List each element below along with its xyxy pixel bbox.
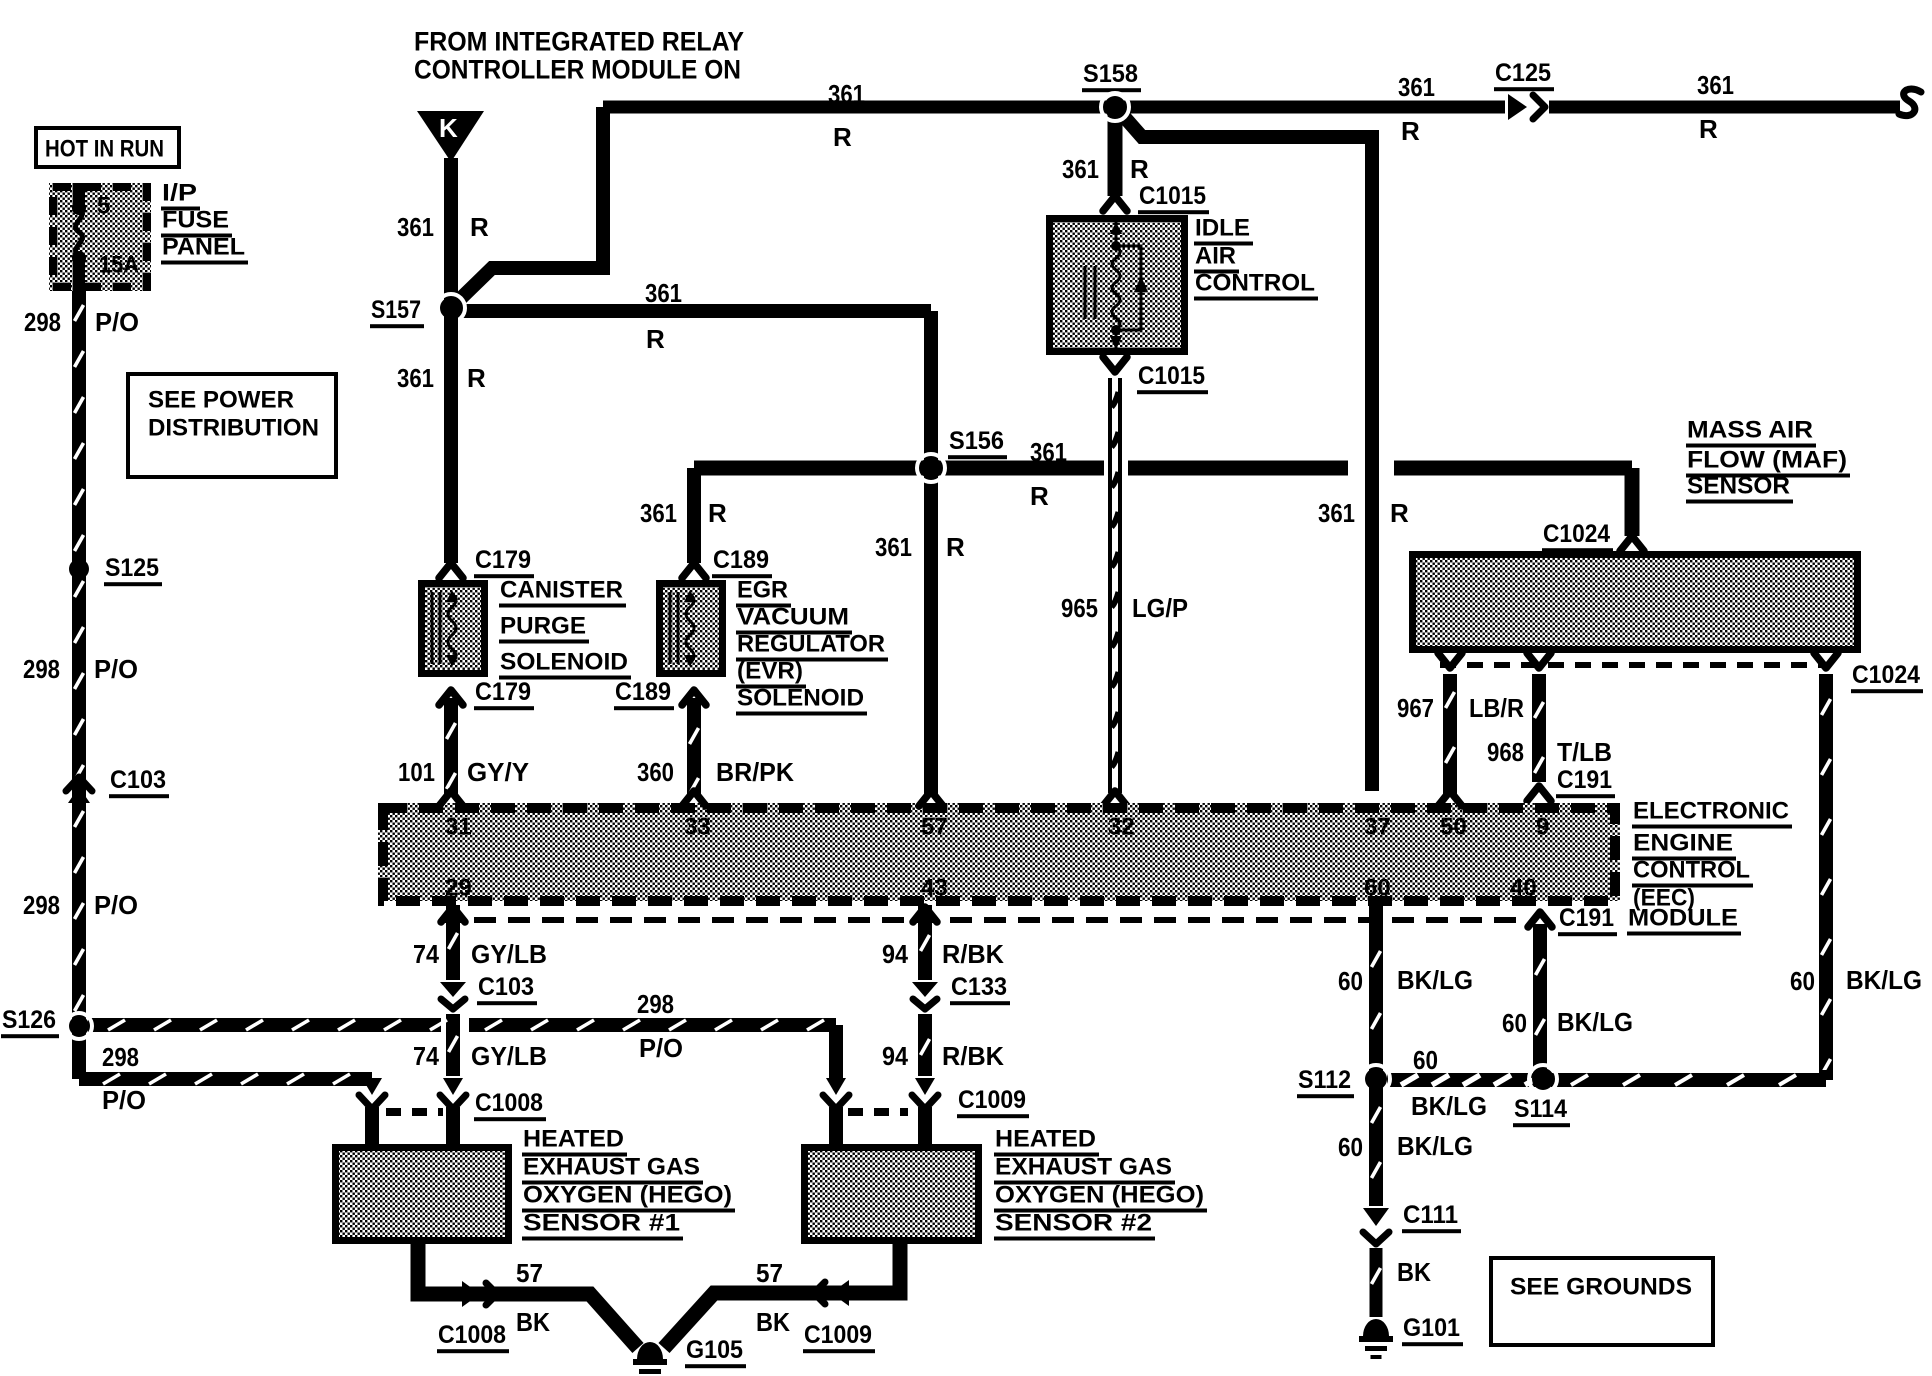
svg-text:S112: S112 — [1298, 1066, 1351, 1094]
svg-text:GY/Y: GY/Y — [467, 757, 529, 787]
svg-text:40: 40 — [1510, 875, 1537, 902]
svg-text:361: 361 — [1318, 498, 1355, 528]
svg-text:R: R — [1401, 116, 1420, 146]
svg-text:OXYGEN (HEGO): OXYGEN (HEGO) — [523, 1182, 732, 1209]
svg-text:R: R — [1030, 481, 1049, 511]
svg-text:361: 361 — [1697, 70, 1734, 100]
svg-text:SOLENOID: SOLENOID — [737, 685, 864, 712]
svg-text:C103: C103 — [478, 973, 534, 1001]
svg-text:298: 298 — [24, 307, 61, 337]
svg-text:HOT IN RUN: HOT IN RUN — [45, 136, 164, 163]
svg-text:C1024: C1024 — [1543, 520, 1610, 548]
svg-text:FLOW (MAF): FLOW (MAF) — [1687, 447, 1847, 474]
svg-text:P/O: P/O — [94, 890, 138, 920]
svg-text:50: 50 — [1440, 814, 1467, 841]
svg-text:BK/LG: BK/LG — [1411, 1091, 1487, 1121]
svg-text:94: 94 — [882, 1041, 908, 1071]
svg-text:R: R — [946, 532, 965, 562]
svg-text:LB/R: LB/R — [1469, 693, 1524, 723]
svg-text:298: 298 — [102, 1042, 139, 1072]
svg-text:I/P: I/P — [162, 180, 197, 207]
svg-text:C1024: C1024 — [1852, 661, 1920, 689]
svg-text:G101: G101 — [1403, 1314, 1460, 1342]
svg-text:31: 31 — [445, 814, 472, 841]
svg-text:MODULE: MODULE — [1628, 905, 1738, 932]
svg-text:PURGE: PURGE — [500, 613, 586, 640]
svg-text:GY/LB: GY/LB — [471, 1041, 547, 1071]
svg-text:361: 361 — [645, 278, 682, 308]
svg-text:BK: BK — [756, 1307, 790, 1337]
svg-text:EXHAUST GAS: EXHAUST GAS — [995, 1154, 1172, 1181]
svg-text:C125: C125 — [1495, 59, 1551, 87]
svg-text:PANEL: PANEL — [162, 234, 245, 261]
svg-text:LG/P: LG/P — [1132, 593, 1188, 623]
svg-text:ELECTRONIC: ELECTRONIC — [1633, 798, 1789, 825]
svg-text:CONTROLLER MODULE ON: CONTROLLER MODULE ON — [414, 55, 741, 85]
svg-text:101: 101 — [398, 757, 435, 787]
svg-text:CONTROL: CONTROL — [1633, 857, 1750, 884]
svg-text:SOLENOID: SOLENOID — [500, 649, 628, 676]
svg-text:C1008: C1008 — [438, 1321, 506, 1349]
svg-text:C1009: C1009 — [804, 1321, 872, 1349]
svg-text:57: 57 — [921, 814, 948, 841]
svg-text:BK: BK — [1397, 1257, 1431, 1287]
svg-text:CONTROL: CONTROL — [1195, 270, 1315, 297]
svg-text:G105: G105 — [686, 1336, 743, 1364]
svg-text:EGR: EGR — [737, 577, 788, 604]
svg-text:74: 74 — [413, 1041, 439, 1071]
svg-text:BK/LG: BK/LG — [1397, 1131, 1473, 1161]
svg-text:S126: S126 — [2, 1006, 56, 1034]
svg-text:P/O: P/O — [94, 654, 138, 684]
svg-text:R: R — [708, 498, 727, 528]
svg-text:60: 60 — [1338, 966, 1363, 996]
svg-text:37: 37 — [1364, 814, 1391, 841]
svg-text:R/BK: R/BK — [942, 1041, 1004, 1071]
svg-text:P/O: P/O — [102, 1085, 146, 1115]
svg-text:361: 361 — [875, 532, 912, 562]
svg-text:C1015: C1015 — [1138, 362, 1205, 390]
svg-text:32: 32 — [1108, 814, 1135, 841]
svg-text:SEE GROUNDS: SEE GROUNDS — [1510, 1274, 1692, 1301]
svg-text:9: 9 — [1536, 814, 1549, 841]
svg-text:968: 968 — [1487, 737, 1524, 767]
svg-text:33: 33 — [684, 814, 711, 841]
svg-text:C133: C133 — [951, 973, 1007, 1001]
svg-text:C1009: C1009 — [958, 1086, 1026, 1114]
svg-text:S114: S114 — [1514, 1095, 1567, 1123]
svg-text:REGULATOR: REGULATOR — [737, 631, 885, 658]
svg-text:P/O: P/O — [95, 307, 139, 337]
svg-text:BK/LG: BK/LG — [1557, 1007, 1633, 1037]
svg-text:C191: C191 — [1559, 904, 1614, 932]
svg-text:R: R — [470, 212, 489, 242]
svg-text:BK/LG: BK/LG — [1846, 965, 1922, 995]
svg-text:MASS AIR: MASS AIR — [1687, 417, 1813, 444]
svg-text:361: 361 — [1030, 437, 1067, 467]
svg-text:C111: C111 — [1403, 1201, 1458, 1229]
svg-text:361: 361 — [640, 498, 677, 528]
svg-text:C179: C179 — [475, 678, 531, 706]
svg-text:60: 60 — [1502, 1008, 1527, 1038]
svg-text:FUSE: FUSE — [162, 207, 229, 234]
svg-text:967: 967 — [1397, 693, 1434, 723]
svg-text:29: 29 — [445, 875, 472, 902]
svg-text:S156: S156 — [949, 427, 1004, 455]
svg-text:S125: S125 — [105, 554, 159, 582]
svg-text:R: R — [1390, 498, 1409, 528]
svg-text:15A: 15A — [99, 252, 139, 279]
svg-text:5: 5 — [97, 193, 110, 220]
svg-text:FROM INTEGRATED RELAY: FROM INTEGRATED RELAY — [414, 27, 744, 57]
svg-text:ENGINE: ENGINE — [1633, 830, 1733, 857]
svg-text:R/BK: R/BK — [942, 939, 1004, 969]
svg-text:965: 965 — [1061, 593, 1098, 623]
svg-text:361: 361 — [397, 363, 434, 393]
svg-text:C179: C179 — [475, 546, 531, 574]
svg-text:298: 298 — [23, 890, 60, 920]
svg-text:IDLE: IDLE — [1195, 215, 1250, 242]
svg-text:R: R — [646, 324, 665, 354]
svg-text:SEE POWER: SEE POWER — [148, 387, 294, 414]
svg-text:R: R — [467, 363, 486, 393]
svg-text:CANISTER: CANISTER — [500, 577, 623, 604]
svg-text:94: 94 — [882, 939, 908, 969]
svg-text:C189: C189 — [615, 678, 671, 706]
svg-text:C1015: C1015 — [1139, 182, 1206, 210]
svg-text:R: R — [1130, 154, 1149, 184]
svg-text:SENSOR #2: SENSOR #2 — [995, 1210, 1152, 1237]
svg-text:361: 361 — [828, 79, 865, 109]
svg-text:SENSOR #1: SENSOR #1 — [523, 1210, 680, 1237]
svg-text:361: 361 — [1062, 154, 1099, 184]
svg-text:74: 74 — [413, 939, 439, 969]
svg-text:SENSOR: SENSOR — [1687, 473, 1790, 500]
svg-text:AIR: AIR — [1195, 243, 1236, 270]
svg-text:GY/LB: GY/LB — [471, 939, 547, 969]
svg-text:K: K — [439, 113, 458, 143]
svg-text:HEATED: HEATED — [995, 1126, 1096, 1153]
svg-text:60: 60 — [1364, 875, 1391, 902]
svg-text:T/LB: T/LB — [1557, 737, 1612, 767]
svg-text:S158: S158 — [1083, 60, 1138, 88]
svg-text:P/O: P/O — [639, 1033, 683, 1063]
svg-text:361: 361 — [1398, 72, 1435, 102]
svg-text:S157: S157 — [371, 296, 421, 324]
svg-text:DISTRIBUTION: DISTRIBUTION — [148, 415, 319, 442]
svg-text:BR/PK: BR/PK — [716, 757, 794, 787]
svg-text:60: 60 — [1413, 1045, 1438, 1075]
svg-text:298: 298 — [23, 654, 60, 684]
svg-text:57: 57 — [756, 1258, 783, 1288]
svg-text:(EVR): (EVR) — [737, 658, 803, 685]
svg-text:60: 60 — [1338, 1132, 1363, 1162]
svg-text:R: R — [833, 122, 852, 152]
svg-text:43: 43 — [921, 875, 948, 902]
svg-text:EXHAUST GAS: EXHAUST GAS — [523, 1154, 700, 1181]
svg-text:R: R — [1699, 114, 1718, 144]
svg-text:HEATED: HEATED — [523, 1126, 624, 1153]
svg-text:C189: C189 — [713, 546, 769, 574]
svg-text:BK: BK — [516, 1307, 550, 1337]
svg-text:VACUUM: VACUUM — [737, 604, 849, 631]
svg-text:C1008: C1008 — [475, 1089, 543, 1117]
svg-text:C103: C103 — [110, 766, 166, 794]
svg-text:57: 57 — [516, 1258, 543, 1288]
svg-text:298: 298 — [637, 989, 674, 1019]
svg-text:361: 361 — [397, 212, 434, 242]
svg-text:C191: C191 — [1557, 766, 1612, 794]
svg-text:OXYGEN (HEGO): OXYGEN (HEGO) — [995, 1182, 1204, 1209]
svg-text:360: 360 — [637, 757, 674, 787]
svg-text:BK/LG: BK/LG — [1397, 965, 1473, 995]
svg-text:60: 60 — [1790, 966, 1815, 996]
